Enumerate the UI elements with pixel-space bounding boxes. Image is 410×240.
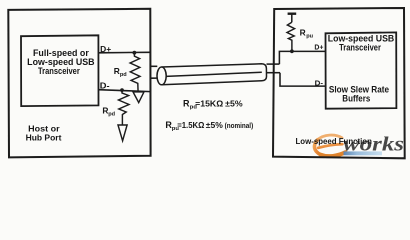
- svg-text:(nominal): (nominal): [225, 123, 254, 130]
- wire D+ host: [99, 51, 151, 54]
- note Rpu value: [165, 120, 253, 132]
- Vcc terminal: [288, 14, 297, 23]
- cable stub D+ left: [151, 65, 158, 67]
- note Rpd value: [183, 98, 243, 110]
- cable stub D- right: [267, 72, 280, 74]
- svg-text:pd: pd: [120, 72, 127, 78]
- svg-text:D-: D-: [315, 78, 324, 87]
- svg-text:=15KΩ: =15KΩ: [195, 98, 223, 108]
- ground (D+): [133, 92, 144, 103]
- cable stub D+ right: [267, 63, 280, 65]
- svg-text:±5%: ±5%: [225, 98, 243, 108]
- svg-text:Transceiver: Transceiver: [339, 43, 381, 53]
- junction on D-: [120, 88, 124, 92]
- transceiver box U1 (host): [21, 35, 99, 106]
- junction on D+: [133, 51, 137, 55]
- svg-text:pu: pu: [306, 34, 313, 40]
- USB cable: [157, 64, 267, 85]
- resistor Rpd (D+) label: [114, 66, 128, 78]
- ground (D-): [118, 125, 127, 141]
- function box: [273, 8, 405, 158]
- wire D+ device: [279, 51, 325, 64]
- svg-text:Low-speed Function: Low-speed Function: [296, 136, 372, 146]
- watermark eworks logo: [314, 134, 404, 157]
- resistor Rpd (D-): [119, 90, 130, 125]
- svg-text:=1.5KΩ: =1.5KΩ: [177, 120, 204, 130]
- transceiver box U2 (device): [326, 32, 397, 108]
- svg-text:Transceiver: Transceiver: [38, 66, 80, 76]
- resistor Rpd (D+): [130, 53, 140, 93]
- junction Rpu / D+: [290, 49, 294, 53]
- wire D- host: [99, 90, 151, 92]
- svg-text:Buffers: Buffers: [342, 94, 370, 104]
- resistor Rpu label: [300, 28, 314, 40]
- resistor Rpu: [287, 22, 295, 51]
- host box: [8, 9, 150, 158]
- svg-text:pd: pd: [108, 111, 115, 117]
- wire D- device: [280, 73, 326, 86]
- svg-text:Hub Port: Hub Port: [26, 133, 62, 143]
- svg-text:D+: D+: [314, 43, 324, 52]
- resistor Rpd (D-) label: [102, 105, 115, 117]
- svg-text:±5%: ±5%: [206, 120, 223, 130]
- svg-text:R: R: [300, 28, 306, 38]
- cable stub D- left: [151, 77, 158, 79]
- host box label: [26, 124, 62, 143]
